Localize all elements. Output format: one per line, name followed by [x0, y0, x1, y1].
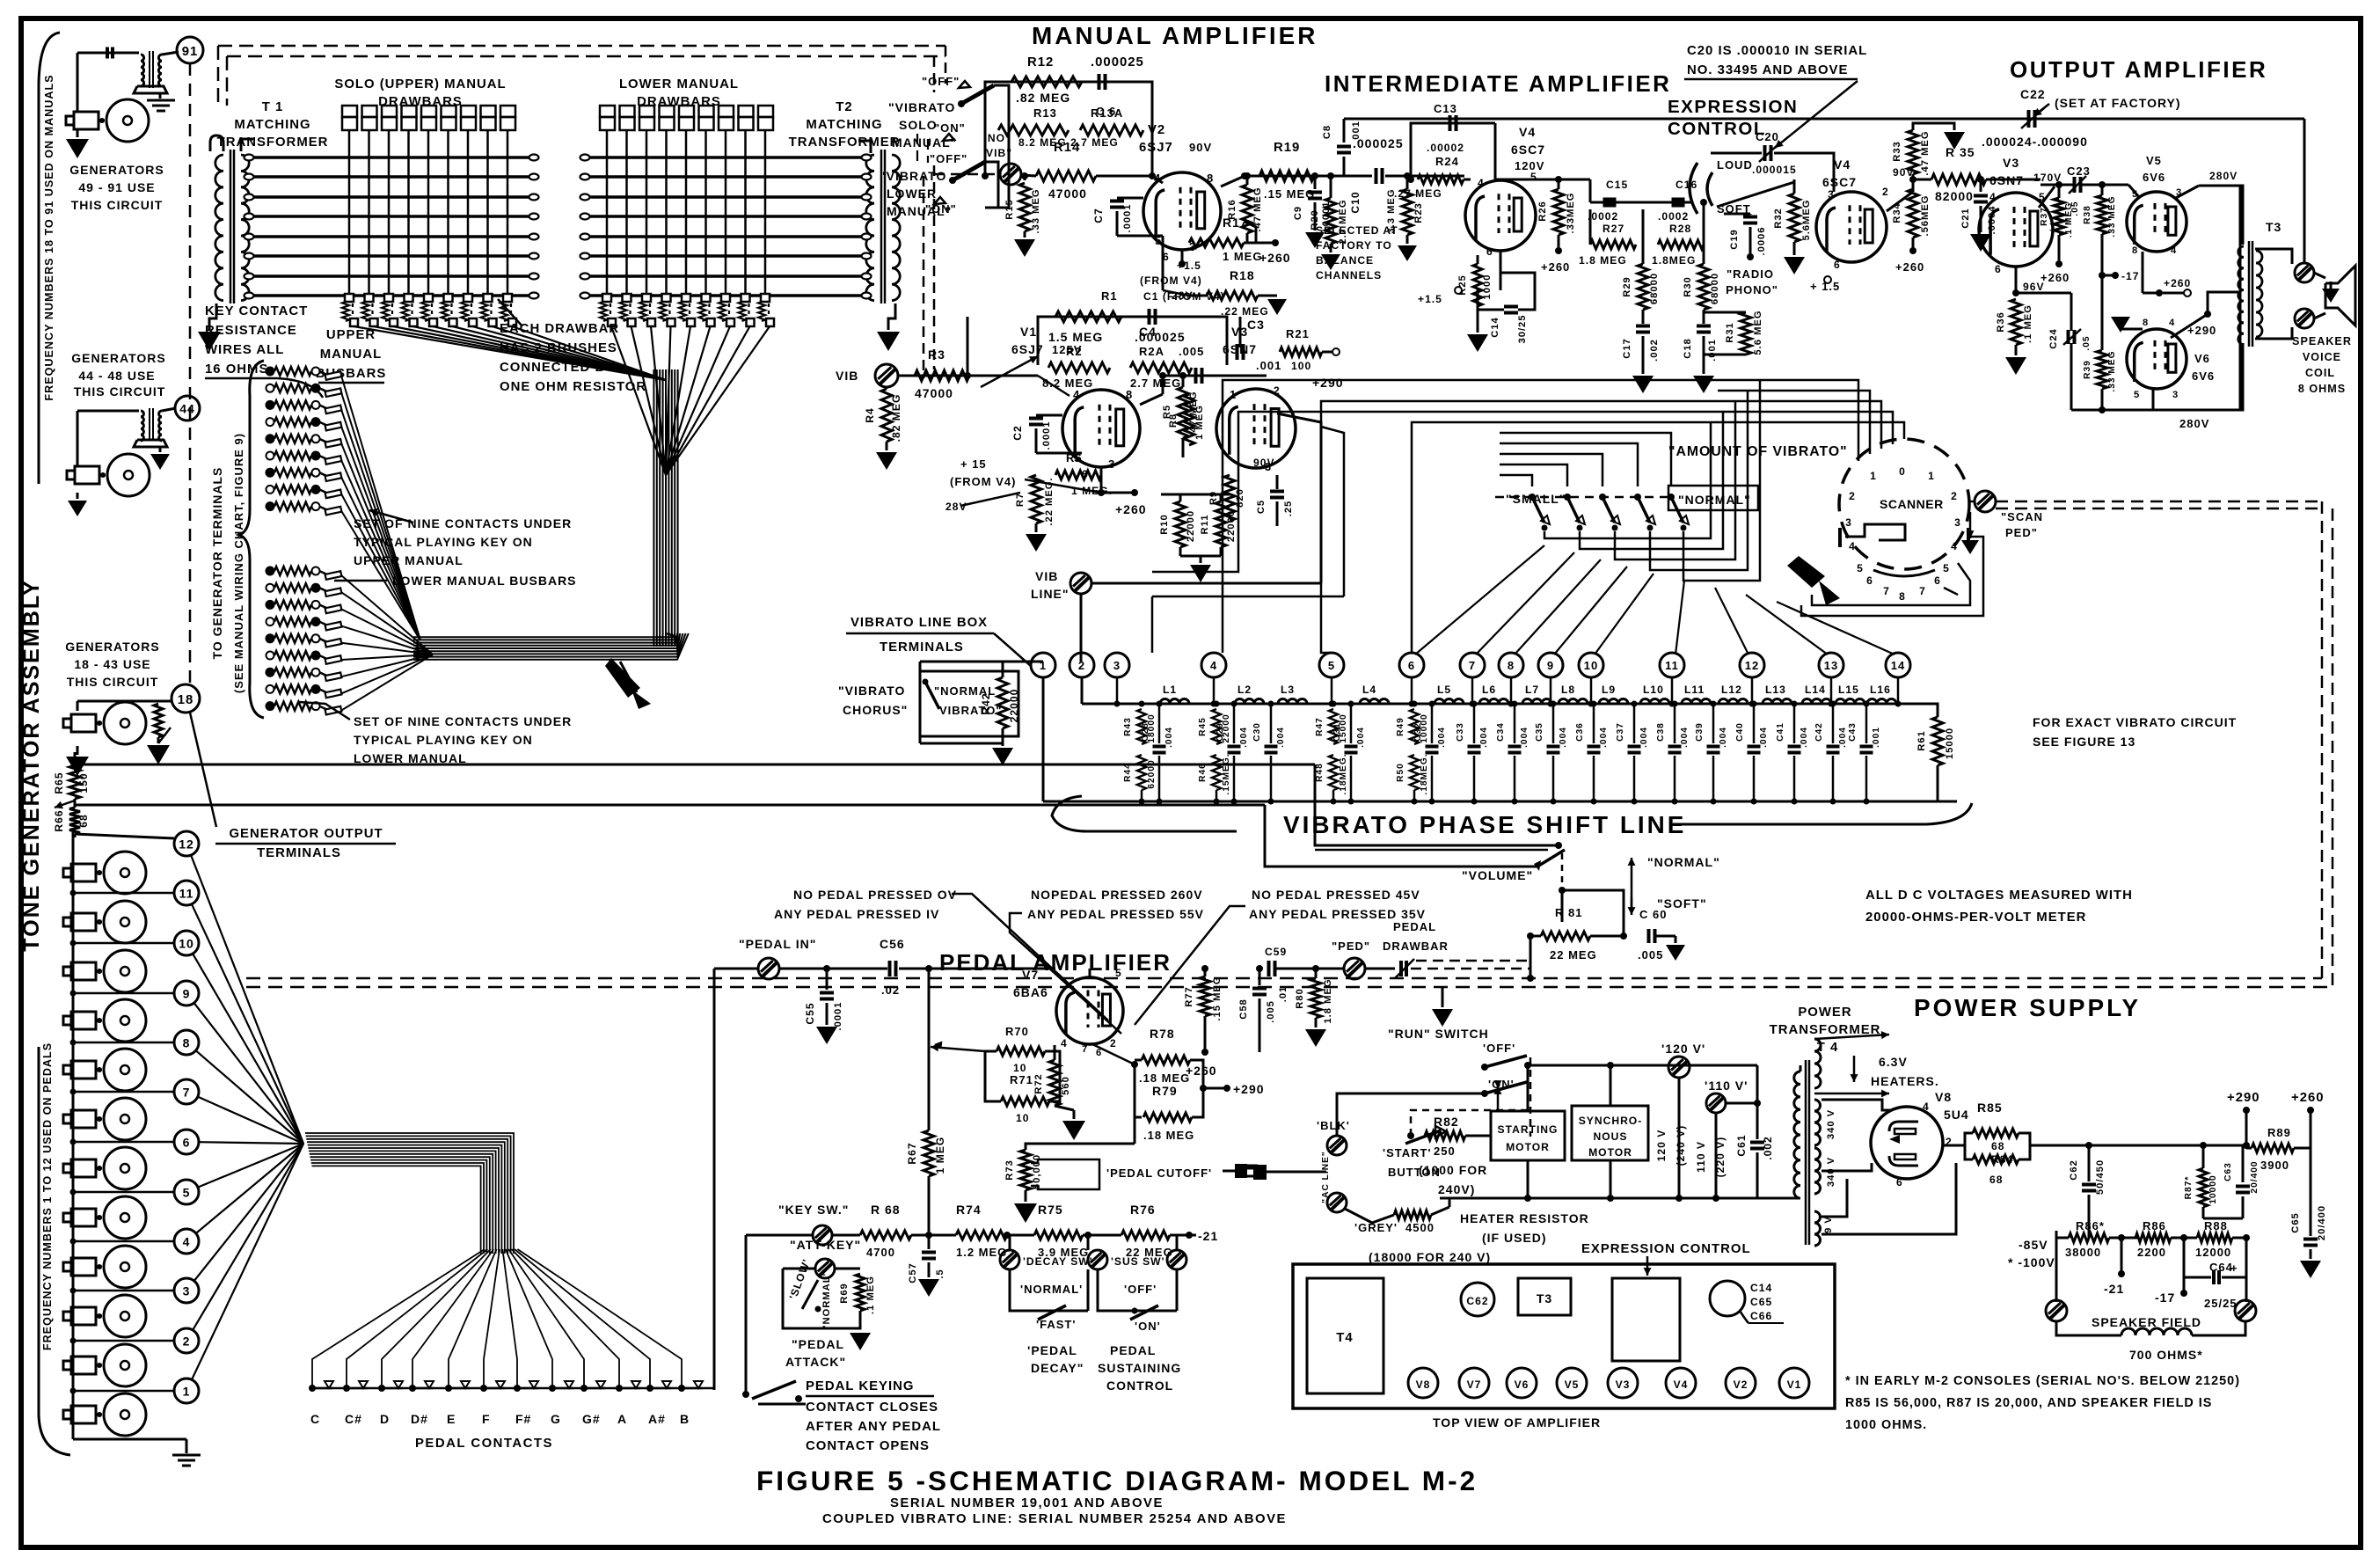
svg-text:22000: 22000 [1186, 510, 1196, 542]
svg-text:6: 6 [183, 1135, 191, 1149]
pedal contact G# [580, 1385, 588, 1392]
svg-text:V8: V8 [1416, 1379, 1431, 1391]
svg-text:4: 4 [1849, 540, 1856, 552]
tube V6 6V6 [2127, 329, 2187, 389]
key contact resistor row 3 [266, 601, 274, 609]
scanner rotor [1845, 524, 1905, 540]
svg-text:.001: .001 [1256, 359, 1281, 372]
wire terminal 11 drop [1671, 677, 1674, 704]
wire bus to terminal 9 [73, 992, 174, 995]
wire V3b plate [2039, 186, 2055, 208]
arrow under R65 [55, 801, 75, 808]
svg-text:2.7 MEG: 2.7 MEG [1338, 199, 1348, 244]
svg-text:C20: C20 [1756, 130, 1779, 143]
svg-text:"PEDAL: "PEDAL [792, 1337, 844, 1351]
svg-text:C35: C35 [1535, 722, 1544, 742]
key contact resistor row 2 [266, 384, 274, 392]
svg-text:R75: R75 [1038, 1203, 1063, 1217]
svg-text:V5: V5 [1565, 1379, 1580, 1391]
one ohm resistor [758, 302, 765, 321]
svg-text:.02: .02 [881, 984, 900, 997]
ground arrow R32 [1784, 257, 1805, 274]
svg-text:VIBRATO PHASE SHIFT LINE: VIBRATO PHASE SHIFT LINE [1283, 811, 1686, 838]
svg-text:V3: V3 [2003, 156, 2019, 170]
terminal SCAN PED [1975, 491, 1996, 512]
svg-text:T 1: T 1 [262, 100, 284, 114]
svg-text:R11: R11 [1200, 515, 1210, 535]
svg-text:.004: .004 [1838, 727, 1848, 748]
svg-text:C33: C33 [1456, 722, 1465, 742]
svg-text:"ATT-KEY": "ATT-KEY" [790, 1238, 861, 1252]
ground arrow C21 [1970, 234, 1991, 252]
svg-text:(SET AT FACTORY): (SET AT FACTORY) [2055, 96, 2181, 110]
svg-text:HEATERS.: HEATERS. [1871, 1074, 1939, 1088]
generator magnet [71, 1357, 96, 1374]
svg-text:R6: R6 [1066, 451, 1083, 464]
svg-text:C5: C5 [1256, 500, 1267, 514]
pedal cable wire to contact E [449, 1249, 497, 1388]
terminal KEY SW [813, 1225, 832, 1245]
svg-text:47000: 47000 [915, 386, 953, 400]
svg-text:C7: C7 [1092, 208, 1105, 223]
resistor R67 1MEG [924, 1130, 934, 1176]
box SYNCHRONOUS MOTOR [1572, 1106, 1648, 1160]
svg-text:+260: +260 [1541, 260, 1570, 274]
vibrato line terminal 3 [1105, 653, 1129, 677]
vibrato switch wires up [1495, 475, 1532, 497]
key contact resistor row 8 [266, 685, 274, 693]
drawbar 9 [500, 106, 515, 117]
drawbar wire [685, 130, 688, 299]
ground arrow gen91 [66, 139, 89, 158]
svg-text:.22 MEG.: .22 MEG. [1044, 477, 1055, 525]
svg-text:38000: 38000 [2065, 1246, 2101, 1259]
svg-text:6: 6 [1408, 659, 1415, 672]
svg-text:EXPRESSION CONTROL: EXPRESSION CONTROL [1581, 1242, 1751, 1256]
one ohm resistor [500, 302, 507, 321]
wire soft to V4b grid [1724, 179, 1794, 214]
svg-text:LOWER MANUAL BUSBARS: LOWER MANUAL BUSBARS [392, 574, 577, 588]
vibrato terminal drop wires [1042, 676, 1044, 678]
svg-text:.33 MEG: .33 MEG [2107, 195, 2117, 237]
R85 R84 loop [1965, 1133, 1973, 1159]
svg-text:R18: R18 [1230, 268, 1255, 282]
arrow R70 left [934, 1044, 997, 1051]
svg-text:.15 MEG: .15 MEG [1212, 976, 1223, 1020]
ground arrow C18 [1693, 376, 1714, 393]
svg-text:MATCHING: MATCHING [234, 118, 310, 132]
vibrato switch 3 [1599, 494, 1606, 501]
wire generator output second [75, 804, 1265, 807]
svg-text:R70: R70 [1005, 1025, 1029, 1038]
svg-text:R19: R19 [1274, 141, 1300, 155]
box STARTING MOTOR [1491, 1111, 1565, 1160]
svg-text:.25: .25 [1283, 501, 1294, 517]
wire T3 secondary to speaker [2255, 249, 2292, 264]
svg-text:C57: C57 [908, 1262, 918, 1283]
resistor R50 .18MEG. [1410, 755, 1419, 790]
scanner lower nested wires [1801, 537, 1983, 616]
scanner circle [1839, 439, 1969, 569]
resistor R36 .1MEG [2015, 267, 2018, 293]
node 3 terminal circle [174, 1278, 199, 1303]
svg-text:FACTORY TO: FACTORY TO [1316, 239, 1392, 252]
svg-text:'OFF': 'OFF' [1124, 1283, 1157, 1296]
capacitor C35 .004 [1552, 704, 1555, 743]
svg-text:'DECAY SW': 'DECAY SW' [1023, 1255, 1093, 1268]
busbar 2 [245, 175, 538, 179]
svg-text:4: 4 [1989, 191, 1997, 203]
busbar 3 [580, 195, 871, 199]
ground arrow gen18 [147, 745, 170, 764]
svg-text:"KEY SW.": "KEY SW." [778, 1203, 849, 1217]
ground arrow R42 [992, 748, 1013, 765]
svg-text:.004: .004 [1719, 727, 1728, 748]
wire terminal 3 drop [1116, 677, 1119, 704]
transformer core [230, 150, 232, 303]
T4 secondary 340V b [1814, 1148, 1821, 1194]
resistor R33 .47MEG [1908, 130, 1918, 174]
resistor R23 3.3MEG [1402, 189, 1413, 235]
svg-text:2: 2 [1882, 186, 1889, 198]
svg-text:5: 5 [2134, 390, 2140, 400]
svg-text:C14: C14 [1490, 317, 1500, 338]
svg-text:R43: R43 [1123, 717, 1133, 736]
pedal keying main line [746, 1234, 813, 1237]
svg-text:ATTACK": ATTACK" [785, 1355, 846, 1369]
svg-text:VIBRATO": VIBRATO" [939, 704, 1002, 717]
svg-text:V1: V1 [1787, 1379, 1802, 1391]
svg-text:18 - 43 USE: 18 - 43 USE [74, 657, 150, 671]
pedal cutoff pot box [1031, 1159, 1099, 1189]
svg-text:6: 6 [1934, 574, 1941, 587]
vibrato line terminal 7 [1460, 653, 1485, 677]
brush fan wire [413, 326, 667, 380]
svg-text:2: 2 [1849, 490, 1856, 502]
svg-text:V4: V4 [1834, 157, 1851, 172]
one ohm resistor [342, 302, 349, 321]
wire +290 pedal [1203, 1087, 1227, 1090]
drawbar 1 [600, 106, 615, 117]
svg-text:120 V: 120 V [1655, 1130, 1668, 1162]
dashed vertical right side [2321, 501, 2324, 978]
svg-text:100: 100 [1291, 360, 1311, 372]
svg-text:.001: .001 [1872, 727, 1881, 748]
svg-text:L12: L12 [1721, 684, 1742, 696]
svg-text:2: 2 [1110, 1037, 1117, 1049]
capacitor C34 .004 [1514, 704, 1516, 743]
drawbar brush contact 3 [384, 294, 393, 302]
svg-text:R69: R69 [839, 1283, 850, 1304]
svg-text:6SC7: 6SC7 [1511, 143, 1545, 157]
svg-text:(FROM V4): (FROM V4) [950, 475, 1016, 488]
svg-text:R2A: R2A [1139, 345, 1164, 358]
svg-text:'PEDAL: 'PEDAL [1027, 1343, 1077, 1357]
svg-text:.005: .005 [1179, 345, 1204, 358]
svg-text:11: 11 [1665, 659, 1679, 672]
svg-text:'NORMAL': 'NORMAL' [1020, 1283, 1083, 1296]
svg-text:PED": PED" [2005, 526, 2038, 539]
svg-text:4500: 4500 [1405, 1221, 1435, 1234]
wire volume node down to dashed line [1529, 936, 1532, 978]
svg-text:F: F [482, 1412, 491, 1426]
resistor R37 .1MEG [2054, 198, 2064, 235]
svg-text:'START': 'START' [1383, 1146, 1432, 1159]
svg-text:C17: C17 [1622, 338, 1632, 359]
transformer primary [866, 155, 874, 301]
wire AC to switch [1337, 1093, 1485, 1136]
svg-text:R 68: R 68 [871, 1203, 901, 1217]
svg-text:.1 MEG: .1 MEG [865, 1276, 876, 1314]
svg-text:.000024-.000090: .000024-.000090 [1982, 135, 2088, 149]
pedal cable fan wire 4 [196, 1144, 303, 1233]
wire B+ rail [2089, 1144, 2246, 1147]
svg-text:5.6MEG: 5.6MEG [1801, 199, 1812, 240]
svg-text:68000: 68000 [1649, 273, 1660, 304]
wire bus to terminal 10 [73, 942, 174, 945]
wire NO VIB to R14 [1021, 175, 1036, 176]
wire -21 [1177, 1234, 1196, 1237]
key contact resistor row 9 [266, 702, 274, 710]
svg-text:T3: T3 [2266, 220, 2281, 234]
wire vib line feed from above [1277, 413, 1321, 583]
svg-text:6BA6: 6BA6 [1013, 985, 1048, 999]
wire B contact up [713, 1388, 715, 1390]
svg-text:+290: +290 [1312, 376, 1344, 390]
svg-text:L16: L16 [1870, 684, 1891, 696]
one ohm resistor [382, 302, 389, 321]
svg-text:SET OF NINE CONTACTS UNDE: SET OF NINE CONTACTS UNDER [354, 714, 572, 728]
one ohm resistor [600, 302, 607, 321]
svg-text:L4: L4 [1362, 684, 1376, 696]
svg-text:R24: R24 [1435, 155, 1459, 168]
svg-text:R67: R67 [906, 1142, 918, 1164]
pedal contact E [445, 1385, 452, 1392]
svg-text:4: 4 [2171, 245, 2177, 256]
svg-text:.1 MEG: .1 MEG [2064, 202, 2074, 238]
resistor R48 .18MEG. [1329, 755, 1338, 790]
resistor R34 .56MEG [1908, 189, 1918, 238]
scanner nested wires [1750, 422, 1904, 439]
vibrato switch wires to scanner [1544, 422, 1711, 538]
svg-text:20000-OHMS-PER-VOLT METER: 20000-OHMS-PER-VOLT METER [1865, 910, 2086, 925]
svg-text:280V: 280V [2209, 170, 2238, 182]
svg-text:25/25: 25/25 [2204, 1297, 2238, 1310]
resistor R44 62000 [1137, 755, 1146, 790]
svg-text:9 V: 9 V [1823, 1216, 1834, 1233]
svg-text:4: 4 [1073, 388, 1080, 401]
svg-text:NOPEDAL PRESSED 260V: NOPEDAL PRESSED 260V [1031, 888, 1203, 902]
svg-text:(FROM V4): (FROM V4) [1140, 274, 1202, 287]
svg-text:12: 12 [179, 837, 194, 851]
brush fan wire [354, 326, 666, 380]
pedal cable wire to contact A# [515, 1249, 650, 1388]
svg-text:V7: V7 [1022, 968, 1039, 982]
drawbar wire [388, 130, 391, 299]
svg-text:30/25: 30/25 [1517, 315, 1528, 344]
key contact resistor row 9 [266, 502, 274, 510]
one ohm resistor [461, 302, 468, 321]
pedal contact C [309, 1385, 316, 1392]
svg-text:R20: R20 [1310, 209, 1320, 230]
svg-text:LOWER MANUAL: LOWER MANUAL [354, 751, 467, 765]
capacitor C57 .5 [928, 1235, 931, 1249]
capacitor C21 .0004 [1974, 194, 1988, 198]
svg-text:'NORMAL': 'NORMAL' [821, 1273, 832, 1327]
svg-text:.0002: .0002 [1588, 210, 1618, 223]
svg-text:7: 7 [1919, 585, 1926, 597]
svg-text:8: 8 [1126, 388, 1133, 401]
resistor R46 .15MEG. [1212, 755, 1221, 790]
svg-text:6V6: 6V6 [2192, 369, 2215, 383]
ground arrow R15 [1014, 239, 1035, 257]
svg-text:EXPRESSION: EXPRESSION [1668, 97, 1798, 117]
pedal cable wire to contact G [506, 1249, 552, 1388]
generator pickup coil circle [104, 1295, 146, 1337]
drawbar 5 [679, 106, 694, 117]
ground arrow C17 [1632, 376, 1654, 393]
svg-text:C1 (FROM V4): C1 (FROM V4) [1143, 290, 1225, 303]
generator pickup coil circle [107, 454, 150, 496]
svg-text:MANUAL": MANUAL" [892, 135, 957, 150]
svg-text:TOP VIEW OF AMPLIFIER: TOP VIEW OF AMPLIFIER [1433, 1415, 1601, 1430]
svg-text:FIGURE 5 -SCHEMATIC DIAGRAM: FIGURE 5 -SCHEMATIC DIAGRAM- MODEL M-2 [756, 1465, 1478, 1496]
pedal attack box [783, 1269, 860, 1328]
svg-text:C30: C30 [1252, 722, 1262, 742]
generator pickup coil circle [104, 901, 146, 943]
expression control curves [1690, 163, 1697, 214]
one ohm resistor [402, 302, 409, 321]
drawbar wire [427, 130, 430, 299]
svg-text:4: 4 [2169, 318, 2175, 328]
capacitor C58 .005 [1259, 969, 1261, 985]
svg-text:1: 1 [1870, 470, 1877, 482]
one ohm resistor [739, 302, 746, 321]
svg-text:6: 6 [1834, 259, 1841, 271]
generator magnet [71, 1061, 96, 1079]
svg-text:7: 7 [1469, 659, 1476, 672]
svg-text:6SN7: 6SN7 [1223, 342, 1257, 356]
svg-text:3: 3 [1954, 516, 1961, 529]
svg-text:(IF USED): (IF USED) [1482, 1231, 1547, 1245]
svg-text:C20 IS .000010 IN SERIAL: C20 IS .000010 IN SERIAL [1687, 44, 1867, 58]
svg-text:7: 7 [1082, 1044, 1088, 1055]
capacitor C43 .001 [1865, 704, 1868, 743]
svg-text:R27: R27 [1602, 223, 1624, 235]
one ohm resistor [639, 302, 646, 321]
svg-text:R10: R10 [1159, 514, 1170, 535]
wire +260 node output [2156, 289, 2163, 296]
svg-text:R74: R74 [956, 1203, 982, 1217]
dashed expression line horizontal [246, 977, 2322, 980]
svg-text:R31: R31 [1725, 322, 1735, 343]
wire bus to terminal 11 [73, 892, 174, 895]
ground arrow R69 [859, 1328, 861, 1337]
pedal cable band [303, 1143, 493, 1144]
resistor R69 .1MEG [856, 1274, 865, 1311]
svg-text:THIS CIRCUIT: THIS CIRCUIT [71, 198, 164, 212]
resistor R29 68000 [1638, 264, 1648, 310]
capacitor C41 .004 [1793, 704, 1796, 743]
resistor R30 68000 [1698, 264, 1709, 310]
svg-text:TO GENERATOR TERMINALS: TO GENERATOR TERMINALS [210, 467, 224, 660]
circle C14 C65 C66 [1710, 1281, 1745, 1316]
svg-text:R39: R39 [2083, 360, 2092, 379]
svg-text:"AMOUNT OF VIBRATO": "AMOUNT OF VIBRATO" [1668, 444, 1848, 459]
terminal PEDAL IN [758, 958, 779, 979]
svg-text:L13: L13 [1765, 684, 1786, 696]
svg-text:18: 18 [178, 693, 194, 707]
capacitor C18 .001 [1703, 310, 1705, 324]
node 10 terminal circle [174, 931, 199, 955]
wire V2 cathode down [1162, 236, 1164, 290]
svg-text:SPEAKER: SPEAKER [2292, 335, 2352, 347]
wire terminal 12 drop [1751, 677, 1754, 704]
wire V1 grid [969, 376, 1082, 400]
svg-text:R80: R80 [1295, 988, 1305, 1009]
key contact resistor row 7 [266, 469, 274, 477]
svg-text:DECAY": DECAY" [1031, 1361, 1084, 1375]
svg-text:B: B [680, 1412, 690, 1426]
top view tube V3 [1608, 1368, 1638, 1398]
transformer secondary [241, 155, 249, 301]
svg-text:2: 2 [1274, 384, 1281, 397]
svg-text:700 OHMS*: 700 OHMS* [2129, 1348, 2203, 1362]
svg-text:V6: V6 [1515, 1379, 1529, 1391]
expression to C19 [1712, 188, 1750, 190]
svg-text:R65: R65 [53, 772, 65, 793]
speaker terminals [2295, 263, 2314, 282]
resistor R39 .33MEG [2097, 350, 2107, 389]
svg-text:6SC7: 6SC7 [1822, 175, 1857, 189]
svg-text:R76: R76 [1130, 1203, 1156, 1217]
wire R42 [920, 661, 1043, 663]
svg-text:TRANSFORMER: TRANSFORMER [789, 135, 901, 150]
svg-text:"VIBRATO: "VIBRATO [838, 684, 905, 698]
svg-text:"NORMAL": "NORMAL" [1647, 855, 1720, 869]
one ohm resistor [660, 302, 667, 321]
svg-text:+290: +290 [2227, 1091, 2260, 1105]
svg-text:UPPER MANUAL: UPPER MANUAL [354, 553, 464, 567]
drawbar 3 [639, 106, 654, 117]
key contact resistor row 8 [266, 486, 274, 494]
svg-text:KEY CONTACT: KEY CONTACT [205, 304, 308, 318]
pedal cable fan wire 2 [193, 1144, 303, 1330]
svg-text:1: 1 [1040, 659, 1047, 672]
wire BLK GREY stubs [1336, 1172, 1338, 1193]
svg-text:CHANNELS: CHANNELS [1316, 269, 1382, 282]
svg-text:NOUS: NOUS [1594, 1130, 1628, 1143]
brush fan wire [374, 326, 667, 380]
svg-text:280V: 280V [2179, 417, 2209, 430]
svg-text:T3: T3 [1537, 1291, 1552, 1305]
resistor R20 2.7MEG [1325, 198, 1336, 244]
svg-text:C2: C2 [1011, 425, 1024, 440]
svg-text:0: 0 [1899, 465, 1906, 478]
transformer gen44 [141, 411, 143, 441]
svg-text:47000: 47000 [1048, 186, 1087, 201]
svg-text:.47 MEG: .47 MEG [1920, 130, 1931, 175]
drawbar wire [467, 130, 470, 299]
vibrato feed nested wires from manual amp [1152, 528, 1222, 653]
vibrato line terminal 13 [1819, 653, 1843, 677]
brush fan wire [493, 326, 667, 380]
svg-text:.000025: .000025 [1353, 136, 1404, 150]
svg-text:44 - 48 USE: 44 - 48 USE [78, 369, 155, 383]
svg-text:62000: 62000 [1147, 759, 1157, 788]
wire +260 V2 [1256, 242, 1275, 245]
svg-text:L9: L9 [1602, 684, 1616, 696]
